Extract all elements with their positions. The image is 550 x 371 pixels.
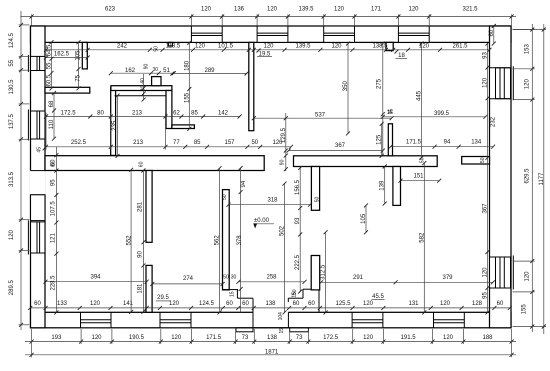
svg-text:313.5: 313.5 bbox=[9, 171, 15, 187]
extension lines top dimension row bbox=[32, 14, 512, 25]
svg-text:94: 94 bbox=[241, 180, 247, 187]
svg-text:120: 120 bbox=[525, 271, 531, 282]
svg-text:171.5: 171.5 bbox=[406, 140, 422, 146]
svg-text:378: 378 bbox=[237, 235, 243, 246]
nib on top wall left bbox=[168, 42, 172, 46]
dimension 289 bbox=[170, 68, 248, 76]
labels 60 on middle wall bbox=[51, 161, 145, 167]
interior dimension row y147 left bbox=[44, 140, 293, 149]
svg-text:181: 181 bbox=[138, 283, 144, 294]
svg-text:136: 136 bbox=[234, 7, 245, 13]
door opening bottom wall (rear entrance) bbox=[253, 312, 288, 328]
svg-text:120: 120 bbox=[91, 335, 102, 341]
left interior column dims bbox=[51, 147, 59, 314]
svg-text:77: 77 bbox=[173, 140, 180, 146]
svg-text:141: 141 bbox=[123, 301, 134, 307]
svg-text:350: 350 bbox=[343, 81, 349, 92]
svg-text:29.5: 29.5 bbox=[157, 295, 169, 301]
svg-text:104: 104 bbox=[278, 312, 284, 321]
top interior dimension row bbox=[44, 43, 492, 52]
svg-text:105: 105 bbox=[361, 213, 367, 224]
svg-text:188: 188 bbox=[482, 335, 493, 341]
svg-text:75: 75 bbox=[76, 74, 82, 81]
svg-text:261.5: 261.5 bbox=[452, 43, 468, 49]
dimension 394 bbox=[44, 275, 149, 284]
svg-text:125.5: 125.5 bbox=[335, 301, 351, 307]
svg-text:±0.00: ±0.00 bbox=[254, 218, 270, 224]
svg-text:171: 171 bbox=[371, 7, 382, 13]
svg-text:151: 151 bbox=[413, 174, 424, 180]
main middle wall right section bbox=[462, 157, 490, 165]
label 19.5 with leader bbox=[257, 49, 273, 58]
svg-text:120: 120 bbox=[201, 7, 212, 13]
svg-text:124.5: 124.5 bbox=[199, 301, 215, 307]
threshold step right of rear door bbox=[290, 328, 309, 332]
svg-text:235: 235 bbox=[112, 120, 118, 131]
svg-text:45: 45 bbox=[37, 147, 43, 153]
svg-text:120: 120 bbox=[267, 7, 278, 13]
interior wall left room divider bbox=[111, 88, 116, 156]
dimension column 156.5-93-222.5 bbox=[295, 166, 302, 294]
dimension 281-90-181 bbox=[138, 169, 146, 314]
svg-text:60.5: 60.5 bbox=[46, 74, 52, 86]
svg-text:95: 95 bbox=[51, 179, 57, 186]
dimension 94-378 bbox=[237, 166, 243, 312]
svg-text:138: 138 bbox=[265, 301, 276, 307]
svg-text:90: 90 bbox=[280, 159, 286, 165]
svg-text:118.5: 118.5 bbox=[166, 43, 181, 49]
svg-text:321.5: 321.5 bbox=[462, 7, 478, 13]
chimney flue tab bbox=[152, 77, 161, 86]
svg-text:120: 120 bbox=[483, 267, 489, 278]
svg-text:40: 40 bbox=[140, 78, 146, 84]
extension lines interior rows left bbox=[46, 113, 166, 150]
svg-text:281: 281 bbox=[138, 201, 144, 212]
svg-text:131: 131 bbox=[408, 301, 419, 307]
svg-text:252.5: 252.5 bbox=[71, 140, 87, 146]
svg-text:394: 394 bbox=[90, 275, 101, 281]
svg-text:120: 120 bbox=[363, 335, 374, 341]
svg-text:68: 68 bbox=[49, 100, 55, 107]
svg-text:258: 258 bbox=[266, 275, 277, 281]
svg-text:95: 95 bbox=[483, 292, 489, 299]
interior wall right vertical bbox=[393, 167, 401, 206]
svg-text:130.5: 130.5 bbox=[9, 79, 15, 95]
svg-text:50: 50 bbox=[223, 275, 229, 281]
dimension 582 bbox=[419, 161, 426, 314]
window W8 right wall bbox=[490, 66, 514, 100]
svg-text:73: 73 bbox=[242, 335, 249, 341]
svg-text:73: 73 bbox=[296, 335, 303, 341]
svg-text:379: 379 bbox=[442, 275, 453, 281]
svg-text:213: 213 bbox=[133, 140, 144, 146]
svg-text:155: 155 bbox=[185, 92, 191, 103]
bottom exterior dimension row 2 total 1871 bbox=[25, 349, 516, 357]
svg-text:367: 367 bbox=[483, 203, 489, 214]
svg-text:562: 562 bbox=[215, 235, 221, 246]
svg-text:101.5: 101.5 bbox=[218, 43, 234, 49]
window W11 bottom wall bbox=[160, 312, 191, 328]
exterior wall bottom band bbox=[31, 312, 512, 328]
extension lines right dimension columns bbox=[513, 30, 547, 327]
svg-text:134: 134 bbox=[471, 140, 482, 146]
interior dimension row y116 bbox=[44, 110, 242, 118]
svg-text:120: 120 bbox=[525, 79, 531, 90]
window W1 top wall bbox=[191, 26, 222, 42]
wall thickness dim line 40 30 bbox=[142, 74, 146, 102]
interior wall center-right vertical bbox=[311, 167, 319, 211]
svg-text:120: 120 bbox=[408, 7, 419, 13]
svg-text:60: 60 bbox=[34, 301, 41, 307]
svg-text:120: 120 bbox=[334, 7, 345, 13]
svg-text:1177: 1177 bbox=[539, 172, 545, 186]
wall stub above middle wall right bbox=[388, 124, 392, 156]
dimension 275 bbox=[376, 42, 384, 155]
window W7 left wall bbox=[28, 220, 45, 254]
interior wall vertical mid-left bbox=[166, 91, 172, 129]
svg-text:50: 50 bbox=[251, 140, 258, 146]
top exterior dimension row bbox=[20, 7, 516, 19]
dimension 235 bbox=[112, 94, 119, 158]
svg-text:15: 15 bbox=[230, 291, 236, 297]
svg-text:172.5: 172.5 bbox=[61, 110, 77, 116]
svg-text:129.5: 129.5 bbox=[281, 127, 287, 143]
interior wall bottom-left vertical upper bbox=[146, 171, 152, 243]
dimension 105 right bbox=[361, 203, 368, 234]
svg-text:60: 60 bbox=[293, 301, 300, 307]
window W12 bottom wall bbox=[352, 312, 383, 328]
svg-text:62: 62 bbox=[173, 110, 180, 116]
svg-text:120: 120 bbox=[331, 43, 342, 49]
svg-text:85: 85 bbox=[191, 110, 198, 116]
svg-text:537: 537 bbox=[315, 112, 326, 118]
dimension 502 bbox=[280, 182, 287, 315]
right exterior dimension column 1 bbox=[525, 24, 535, 332]
dimension 312.5 bbox=[321, 230, 328, 314]
svg-text:120: 120 bbox=[483, 77, 489, 88]
svg-text:60: 60 bbox=[242, 301, 249, 307]
main middle wall left section bbox=[45, 156, 264, 171]
svg-text:50: 50 bbox=[419, 157, 425, 163]
level mark 0.00 bbox=[253, 218, 274, 229]
svg-text:85: 85 bbox=[194, 140, 201, 146]
dimension 139 bbox=[380, 165, 387, 206]
left exterior dimension column bbox=[9, 11, 23, 330]
WC interior dimension 162.5 bbox=[44, 51, 90, 59]
interior wall horizontal mid-left bbox=[172, 125, 195, 129]
dimension row 291-379 bbox=[319, 275, 495, 284]
svg-text:228.5: 228.5 bbox=[51, 275, 57, 291]
interior wall bottom-left vertical lower bbox=[146, 265, 152, 312]
tick at left wall 45 dim bbox=[43, 146, 47, 150]
dimension 552 bbox=[127, 168, 134, 314]
interior bottom dimension row bbox=[28, 301, 512, 310]
porch jog wall right bbox=[288, 289, 319, 312]
window W9 right wall bbox=[490, 256, 514, 290]
svg-text:171.5: 171.5 bbox=[206, 335, 222, 341]
svg-text:60: 60 bbox=[489, 29, 495, 36]
svg-text:156.5: 156.5 bbox=[295, 179, 301, 195]
door dimension 151 bbox=[399, 174, 442, 183]
dimension 125 bbox=[377, 122, 384, 158]
svg-text:213: 213 bbox=[132, 110, 143, 116]
svg-text:191.5: 191.5 bbox=[401, 335, 417, 341]
dimension 274 bbox=[150, 276, 224, 286]
svg-text:51: 51 bbox=[163, 68, 170, 74]
svg-text:120: 120 bbox=[9, 229, 15, 240]
WC left interior dims bbox=[46, 40, 53, 90]
window W6 left wall bbox=[28, 110, 45, 141]
dimension 350 bbox=[343, 42, 350, 136]
svg-text:318: 318 bbox=[267, 198, 278, 204]
svg-text:502: 502 bbox=[280, 225, 286, 236]
svg-text:180: 180 bbox=[185, 60, 191, 71]
dimension 537 bbox=[252, 112, 394, 120]
svg-text:242: 242 bbox=[117, 43, 128, 49]
svg-text:50: 50 bbox=[480, 157, 486, 163]
svg-text:80: 80 bbox=[97, 110, 104, 116]
svg-text:105: 105 bbox=[76, 50, 82, 61]
svg-text:94: 94 bbox=[444, 140, 451, 146]
svg-text:90: 90 bbox=[144, 64, 150, 70]
dimension 318 bbox=[227, 198, 313, 207]
svg-text:193: 193 bbox=[51, 335, 62, 341]
right interior dimension column bbox=[483, 42, 490, 315]
svg-text:55: 55 bbox=[46, 62, 52, 69]
svg-text:142: 142 bbox=[218, 110, 229, 116]
svg-text:64.5: 64.5 bbox=[46, 44, 52, 56]
dimension 258 bbox=[236, 275, 306, 284]
svg-text:15: 15 bbox=[291, 292, 297, 298]
svg-text:60: 60 bbox=[51, 161, 57, 167]
extension lines left dimension column bbox=[19, 25, 30, 325]
svg-text:162: 162 bbox=[125, 68, 136, 74]
furnace wall line bbox=[115, 95, 171, 97]
svg-text:1871: 1871 bbox=[265, 349, 279, 355]
svg-text:367: 367 bbox=[335, 143, 346, 149]
dimension 445 bbox=[417, 42, 424, 160]
window W3 top wall bbox=[324, 26, 355, 42]
svg-text:120: 120 bbox=[90, 301, 101, 307]
dimension row 171.5-94-134 bbox=[389, 140, 496, 149]
door opening in left wall bbox=[30, 171, 46, 195]
svg-text:155: 155 bbox=[522, 304, 528, 315]
svg-text:289.5: 289.5 bbox=[9, 280, 15, 296]
WC right interior dims 105-75 bbox=[76, 40, 82, 90]
interior wall below WC bbox=[45, 87, 90, 93]
label 18 with leader bbox=[395, 50, 408, 60]
exterior wall left band bbox=[31, 26, 46, 328]
svg-text:120: 120 bbox=[440, 301, 451, 307]
svg-text:30: 30 bbox=[231, 275, 237, 281]
interior wall stub right of WC bbox=[82, 42, 87, 69]
svg-text:139.5: 139.5 bbox=[295, 43, 311, 49]
label 45.5 with leader bbox=[372, 294, 385, 300]
svg-text:312.5: 312.5 bbox=[321, 264, 327, 280]
dimension 367 top right bbox=[287, 143, 385, 153]
svg-text:128: 128 bbox=[472, 301, 483, 307]
svg-text:232: 232 bbox=[490, 116, 496, 127]
svg-text:137.5: 137.5 bbox=[9, 113, 15, 129]
porch jog wall left bbox=[223, 290, 254, 313]
nib on top wall right bbox=[386, 42, 393, 50]
porch wall right vertical bbox=[311, 256, 320, 290]
dimension 129.5 bbox=[281, 113, 288, 171]
svg-text:138.5: 138.5 bbox=[372, 43, 388, 49]
svg-text:60: 60 bbox=[226, 301, 233, 307]
svg-text:50: 50 bbox=[222, 194, 228, 200]
svg-text:582: 582 bbox=[419, 232, 425, 243]
svg-text:139: 139 bbox=[380, 180, 386, 191]
svg-text:60: 60 bbox=[308, 301, 315, 307]
labels 50 30 near bedroom wall bottom bbox=[223, 275, 236, 281]
svg-text:120: 120 bbox=[195, 43, 206, 49]
svg-text:121: 121 bbox=[51, 233, 57, 244]
left room dims 68-110 bbox=[49, 91, 56, 141]
svg-text:15: 15 bbox=[279, 328, 285, 334]
interior wall with chimney bbox=[111, 86, 172, 91]
svg-text:552: 552 bbox=[127, 235, 133, 246]
dimension 399.5 bbox=[381, 111, 488, 119]
svg-text:399.5: 399.5 bbox=[434, 111, 450, 117]
svg-text:15: 15 bbox=[387, 110, 393, 116]
svg-text:162.5: 162.5 bbox=[54, 51, 70, 57]
svg-text:157: 157 bbox=[224, 140, 235, 146]
interior wall top-middle vertical bbox=[249, 42, 254, 130]
svg-text:120: 120 bbox=[363, 301, 374, 307]
threshold step left of rear door bbox=[236, 328, 253, 332]
window W13 bottom wall bbox=[434, 312, 465, 328]
svg-text:125: 125 bbox=[377, 134, 383, 145]
svg-text:133: 133 bbox=[57, 301, 68, 307]
svg-text:107.5: 107.5 bbox=[51, 201, 57, 217]
exterior wall top band bbox=[31, 26, 512, 42]
svg-text:50: 50 bbox=[315, 197, 321, 203]
window W2 top wall bbox=[257, 26, 288, 42]
svg-text:55: 55 bbox=[9, 59, 15, 66]
svg-text:60: 60 bbox=[497, 301, 504, 307]
svg-text:120: 120 bbox=[169, 301, 180, 307]
svg-text:222.5: 222.5 bbox=[295, 254, 301, 270]
svg-text:138: 138 bbox=[267, 335, 278, 341]
svg-text:90: 90 bbox=[138, 251, 144, 258]
window W5 left wall bbox=[28, 55, 45, 72]
svg-text:124.5: 124.5 bbox=[9, 33, 15, 49]
svg-text:190.5: 190.5 bbox=[129, 335, 145, 341]
main middle wall center section bbox=[294, 156, 438, 167]
svg-text:274: 274 bbox=[183, 276, 194, 282]
svg-text:289: 289 bbox=[204, 68, 215, 74]
svg-text:120: 120 bbox=[171, 335, 182, 341]
svg-text:445: 445 bbox=[417, 90, 423, 101]
window W4 top wall bbox=[398, 26, 429, 42]
svg-text:139.5: 139.5 bbox=[298, 7, 314, 13]
dimension 60 top right wall bbox=[489, 24, 496, 46]
interior wall bedroom divider bbox=[223, 190, 230, 290]
label 29.5 with leader bbox=[156, 295, 171, 301]
svg-text:93: 93 bbox=[483, 52, 489, 59]
right exterior dimension column 2 total 1177 bbox=[539, 24, 546, 334]
bottom exterior dimension row 1 bbox=[25, 335, 516, 344]
chimney top dims 162 90 30 51 bbox=[109, 64, 176, 76]
window box left wall bbox=[31, 195, 46, 221]
small labels near chimney 40 30 bbox=[140, 78, 146, 91]
svg-text:275: 275 bbox=[376, 78, 382, 89]
svg-text:60: 60 bbox=[139, 161, 145, 167]
svg-text:172.5: 172.5 bbox=[323, 335, 339, 341]
svg-text:629.5: 629.5 bbox=[525, 168, 531, 184]
svg-text:120: 120 bbox=[263, 43, 274, 49]
window W10 bottom wall bbox=[81, 312, 112, 328]
labels 50 at mid wall door jambs right bbox=[419, 157, 486, 163]
svg-text:291: 291 bbox=[353, 275, 364, 281]
exterior wall right band bbox=[490, 26, 512, 328]
svg-text:623: 623 bbox=[105, 7, 116, 13]
extension lines bottom dimension rows bbox=[32, 329, 512, 357]
dimension 180-155 bbox=[185, 41, 192, 131]
svg-text:50: 50 bbox=[154, 46, 160, 52]
svg-text:153: 153 bbox=[525, 44, 531, 55]
dimension 562 bbox=[215, 166, 222, 314]
svg-text:120: 120 bbox=[443, 335, 454, 341]
svg-text:30: 30 bbox=[153, 67, 159, 73]
svg-text:110: 110 bbox=[49, 119, 55, 129]
svg-text:93: 93 bbox=[295, 217, 301, 224]
